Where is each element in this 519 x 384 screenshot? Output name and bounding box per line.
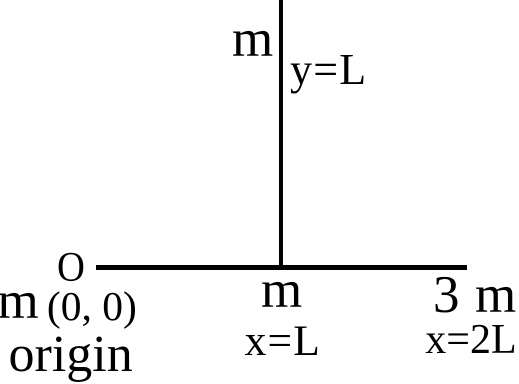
node label (0, 0) <box>47 286 137 328</box>
node mass m at origin <box>0 275 39 328</box>
node label y=L <box>290 48 367 92</box>
node label x=2L <box>425 319 516 361</box>
wire vertical rod (y-axis) <box>279 0 283 270</box>
node mass m at y=L <box>232 13 273 66</box>
wire horizontal rod (x-axis) <box>96 265 467 270</box>
node label x=L <box>245 320 321 364</box>
node O origin point <box>57 247 85 289</box>
node mass m at x=L <box>261 264 302 317</box>
node mass 3 m at x=2L <box>433 269 460 322</box>
node label origin <box>9 329 133 381</box>
